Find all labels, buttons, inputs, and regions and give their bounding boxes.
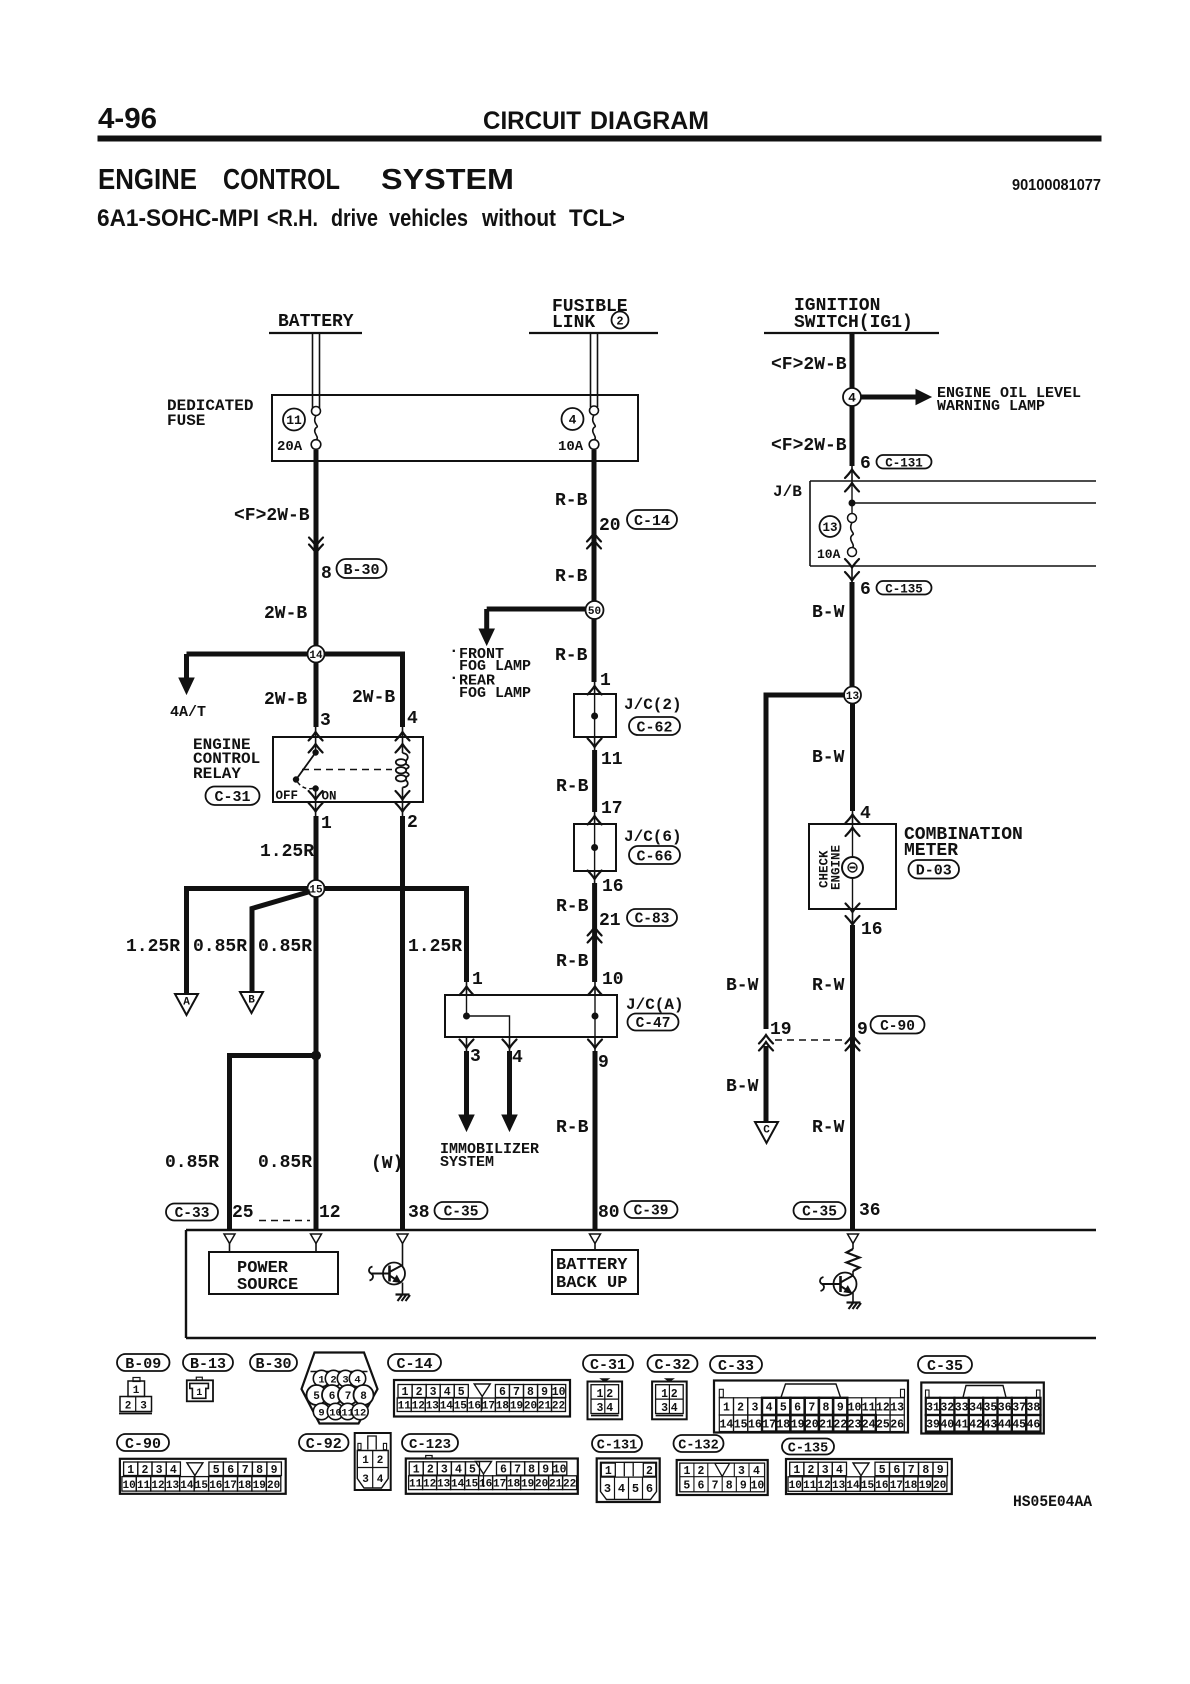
svg-text:BATTERY: BATTERY	[278, 312, 354, 332]
svg-text:4: 4	[407, 709, 418, 729]
svg-text:C-39: C-39	[634, 1204, 669, 1220]
svg-text:13: 13	[846, 691, 860, 703]
svg-text:4: 4	[354, 1375, 360, 1387]
svg-text:14: 14	[180, 1480, 194, 1492]
svg-text:18: 18	[238, 1480, 252, 1492]
svg-text:15: 15	[195, 1480, 209, 1492]
wire branch node13 left	[766, 693, 845, 698]
svg-text:21: 21	[819, 1418, 833, 1431]
svg-text:11: 11	[286, 413, 302, 428]
svg-text:R-W: R-W	[812, 976, 845, 996]
svg-text:3: 3	[661, 1402, 668, 1415]
svg-text:12: 12	[817, 1480, 830, 1492]
svg-text:4: 4	[671, 1402, 678, 1415]
svg-text:ON: ON	[322, 790, 337, 804]
svg-text:R-B: R-B	[556, 952, 589, 972]
svg-text:B-W: B-W	[812, 748, 845, 768]
svg-text:ENGINE: ENGINE	[830, 845, 844, 890]
svg-text:3: 3	[140, 1401, 147, 1413]
fuse number 4	[562, 408, 584, 430]
svg-text:4: 4	[444, 1386, 451, 1399]
wire main to ECU pin12	[314, 897, 319, 1230]
svg-text:4: 4	[455, 1464, 462, 1477]
svg-text:2: 2	[737, 1402, 744, 1415]
connector label C-62	[629, 717, 680, 736]
svg-text:12: 12	[876, 1402, 890, 1415]
svg-text:RELAY: RELAY	[193, 765, 241, 783]
svg-text:<F>2W-B: <F>2W-B	[234, 506, 310, 526]
svg-text:42: 42	[969, 1418, 983, 1431]
svg-text:C-66: C-66	[636, 848, 672, 865]
label CHECK ENGINE rotated	[818, 850, 832, 888]
transistor Q2	[852, 1271, 854, 1277]
svg-text:37: 37	[1012, 1402, 1026, 1415]
svg-text:90100081077: 90100081077	[1012, 177, 1101, 194]
svg-text:11: 11	[601, 750, 623, 770]
svg-text:40: 40	[940, 1418, 954, 1431]
svg-text:11: 11	[803, 1480, 817, 1492]
chevron double up C-83	[588, 927, 602, 936]
svg-text:SWITCH(IG1): SWITCH(IG1)	[794, 313, 913, 333]
svg-text:1: 1	[127, 1464, 134, 1477]
svg-text:12: 12	[354, 1408, 367, 1420]
svg-text:10: 10	[552, 1386, 566, 1399]
svg-text:1: 1	[793, 1464, 800, 1477]
svg-text:2W-B: 2W-B	[264, 690, 307, 710]
svg-text:4: 4	[569, 413, 577, 428]
svg-text:14: 14	[451, 1479, 465, 1491]
triangle connector B	[240, 992, 263, 1013]
svg-text:6: 6	[860, 454, 871, 474]
relay dashed link	[302, 769, 392, 771]
svg-text:9: 9	[598, 1053, 609, 1073]
svg-text:1.25R: 1.25R	[126, 937, 180, 957]
svg-text:C-35: C-35	[444, 1205, 479, 1221]
svg-text:8: 8	[527, 1386, 534, 1399]
svg-text:4: 4	[836, 1464, 843, 1477]
svg-text:3: 3	[362, 1474, 369, 1486]
chevrons J/B exit	[845, 559, 859, 568]
svg-text:11: 11	[137, 1480, 151, 1492]
svg-text:23: 23	[848, 1418, 862, 1431]
svg-text:9: 9	[937, 1464, 944, 1477]
svg-text:0.85R: 0.85R	[258, 1153, 312, 1173]
svg-text:11: 11	[398, 1401, 412, 1413]
svg-text:C: C	[763, 1125, 770, 1137]
svg-text:C-47: C-47	[636, 1016, 671, 1032]
svg-text:9: 9	[541, 1386, 548, 1399]
svg-text:4: 4	[618, 1482, 625, 1496]
triangle connector A	[175, 994, 198, 1015]
svg-text:5: 5	[213, 1464, 220, 1477]
svg-text:B-13: B-13	[190, 1356, 226, 1373]
connector label C-47	[628, 1014, 679, 1033]
connector C-33 pinout	[714, 1381, 908, 1433]
svg-text:20: 20	[805, 1418, 819, 1431]
svg-text:CONTROL: CONTROL	[223, 164, 340, 196]
fuse number 13	[820, 516, 841, 537]
svg-text:2: 2	[606, 1388, 613, 1401]
svg-text:D-03: D-03	[916, 863, 952, 880]
connector label C-14 bottom	[388, 1354, 441, 1373]
svg-text:(W): (W)	[371, 1154, 403, 1174]
connector label C-32 bottom	[648, 1355, 698, 1374]
svg-text:<F>2W-B: <F>2W-B	[771, 355, 847, 375]
wire relay pin1 to node15	[315, 802, 317, 816]
connector label B-09 bottom	[117, 1354, 170, 1373]
wire JC2 to JC6	[594, 737, 596, 750]
svg-text:FUSE: FUSE	[167, 412, 205, 430]
relay box	[273, 737, 423, 802]
svg-text:5: 5	[780, 1402, 787, 1415]
svg-text:19: 19	[521, 1479, 534, 1491]
svg-text:2: 2	[671, 1388, 678, 1401]
wire coil out to ECU pin38	[402, 802, 404, 816]
svg-text:8: 8	[321, 564, 332, 584]
node 50	[586, 601, 604, 619]
svg-text:3: 3	[597, 1402, 604, 1415]
combination meter box	[809, 824, 896, 909]
svg-text:13: 13	[822, 521, 837, 535]
wire fusible main	[592, 450, 597, 610]
svg-text:1: 1	[605, 1465, 612, 1478]
wire JCA pin9 to ECU	[594, 1037, 596, 1051]
svg-text:J/C(A): J/C(A)	[626, 996, 684, 1014]
connector C-35 pinout	[921, 1383, 1044, 1434]
svg-text:17: 17	[224, 1480, 237, 1492]
svg-text:B-09: B-09	[125, 1356, 161, 1373]
wire node50 to JC2	[592, 619, 597, 682]
svg-text:15: 15	[454, 1401, 468, 1413]
svg-text:A: A	[183, 997, 190, 1009]
svg-text:SYSTEM: SYSTEM	[381, 164, 514, 196]
svg-text:12: 12	[423, 1479, 436, 1491]
svg-text:1: 1	[597, 1388, 604, 1401]
svg-text:R-B: R-B	[555, 491, 588, 511]
svg-text:21: 21	[549, 1479, 563, 1491]
wire branch fog lamps	[487, 607, 586, 612]
svg-text:C-132: C-132	[678, 1438, 719, 1453]
svg-text:4: 4	[377, 1474, 384, 1486]
wire fusible-link lead double-line	[590, 334, 592, 407]
wire to oil level lamp	[861, 395, 918, 400]
svg-text:19: 19	[791, 1418, 805, 1431]
svg-text:10: 10	[122, 1480, 135, 1492]
wire jog to B	[252, 892, 310, 993]
resistor R1	[852, 1244, 854, 1250]
wire branch to 4A/T	[187, 652, 308, 657]
connector B-30 pinout	[302, 1353, 378, 1424]
connector label C-14	[627, 510, 677, 530]
wire ignition feed	[850, 334, 855, 466]
svg-text:11: 11	[862, 1402, 876, 1415]
svg-text:6: 6	[893, 1464, 900, 1477]
svg-text:C-14: C-14	[396, 1356, 432, 1373]
svg-text:80: 80	[598, 1203, 620, 1223]
connector B-09 pinout	[133, 1378, 140, 1382]
arrow to 4A/T	[179, 678, 194, 694]
connector label C-66	[629, 846, 680, 865]
connector C-131 pinout	[597, 1458, 660, 1502]
connector label C-83	[627, 909, 677, 928]
svg-text:6: 6	[329, 1391, 336, 1403]
svg-text:C-131: C-131	[597, 1438, 638, 1453]
svg-text:B: B	[248, 995, 255, 1007]
svg-text:10A: 10A	[817, 547, 841, 562]
svg-text:2: 2	[330, 1375, 336, 1387]
svg-text:33: 33	[955, 1402, 969, 1415]
svg-text:4: 4	[766, 1402, 773, 1415]
connector label C-131	[877, 455, 932, 470]
svg-text:38: 38	[408, 1203, 430, 1223]
svg-text:R-B: R-B	[556, 897, 589, 917]
svg-text:C-33: C-33	[718, 1358, 754, 1375]
svg-text:39: 39	[926, 1418, 940, 1431]
node 15	[308, 880, 325, 897]
svg-text:3: 3	[156, 1464, 163, 1477]
svg-text:0.85R: 0.85R	[193, 937, 247, 957]
wire relay pin3	[314, 662, 319, 727]
svg-text:1: 1	[661, 1388, 668, 1401]
svg-text:13: 13	[166, 1480, 180, 1492]
svg-text:OFF: OFF	[276, 789, 299, 803]
svg-text:SOURCE: SOURCE	[237, 1276, 298, 1295]
svg-text:17: 17	[482, 1401, 495, 1413]
svg-text:2: 2	[808, 1464, 815, 1477]
chevrons double C-90	[759, 1035, 773, 1044]
svg-text:R-W: R-W	[812, 1118, 845, 1138]
svg-text:6: 6	[499, 1386, 506, 1399]
svg-text:15: 15	[734, 1418, 748, 1431]
svg-text:7: 7	[514, 1464, 521, 1477]
connector C-31 pinout	[588, 1382, 623, 1420]
svg-text:11: 11	[409, 1479, 423, 1491]
connector label C-35 bottom	[918, 1356, 972, 1375]
svg-text:17: 17	[493, 1479, 506, 1491]
svg-text:16: 16	[748, 1418, 762, 1431]
svg-text:2: 2	[427, 1464, 434, 1477]
junction dot	[312, 1051, 321, 1060]
connector label B-30	[337, 559, 387, 579]
svg-text:5: 5	[469, 1464, 476, 1477]
chevrons J/B entry	[845, 470, 859, 479]
svg-text:6A1-SOHC-MPI: 6A1-SOHC-MPI	[97, 205, 259, 232]
connector C-123 pinout	[406, 1459, 578, 1494]
svg-text:7: 7	[513, 1386, 520, 1399]
svg-text:14: 14	[846, 1480, 860, 1492]
ground Q2	[847, 1301, 861, 1303]
svg-text:C-92: C-92	[306, 1436, 342, 1453]
svg-text:2: 2	[698, 1465, 705, 1478]
header rule	[98, 136, 1101, 141]
svg-text:C-35: C-35	[802, 1205, 837, 1221]
connector label B-30 bottom	[250, 1354, 297, 1373]
svg-text:B-W: B-W	[812, 603, 845, 623]
svg-text:J/C(2): J/C(2)	[624, 696, 682, 714]
svg-text:6: 6	[646, 1482, 653, 1496]
connector C-135 pinout	[786, 1459, 952, 1494]
transistor Q1	[402, 1244, 404, 1267]
wire immobilizer feed 3	[466, 1037, 468, 1051]
arrowhead oil lamp	[916, 390, 931, 405]
svg-text:16: 16	[209, 1480, 222, 1492]
svg-text:17: 17	[601, 799, 623, 819]
chevrons meter entry	[846, 815, 860, 824]
svg-text:LINK: LINK	[552, 313, 595, 333]
svg-text:22: 22	[552, 1401, 565, 1413]
svg-text:46: 46	[1026, 1418, 1040, 1431]
svg-text:1: 1	[196, 1388, 202, 1399]
svg-text:18: 18	[496, 1401, 510, 1413]
svg-text:15: 15	[309, 884, 323, 896]
svg-text:drive: drive	[331, 205, 378, 232]
svg-text:7: 7	[908, 1464, 915, 1477]
svg-text:6: 6	[860, 580, 871, 600]
svg-text:TCL>: TCL>	[569, 205, 625, 232]
svg-text:8: 8	[256, 1464, 263, 1477]
svg-text:8: 8	[823, 1402, 830, 1415]
chevrons meter exit	[846, 904, 860, 913]
svg-text:1: 1	[723, 1402, 730, 1415]
svg-text:18: 18	[507, 1479, 521, 1491]
svg-text:C-123: C-123	[409, 1437, 451, 1453]
svg-text:BACK UP: BACK UP	[556, 1274, 627, 1293]
svg-text:4: 4	[170, 1464, 177, 1477]
svg-text:1: 1	[362, 1455, 369, 1467]
svg-text:13: 13	[426, 1401, 440, 1413]
svg-text:3: 3	[822, 1464, 829, 1477]
fuse F4 element	[590, 406, 599, 415]
svg-text:15: 15	[861, 1480, 875, 1492]
svg-text:HS05E04AA: HS05E04AA	[1013, 1493, 1092, 1511]
svg-text:3: 3	[320, 711, 331, 731]
svg-text:2: 2	[616, 314, 623, 328]
svg-text:8: 8	[360, 1391, 367, 1403]
svg-text:C-83: C-83	[635, 912, 670, 928]
svg-text:5: 5	[683, 1479, 690, 1492]
svg-text:14: 14	[309, 650, 323, 662]
svg-text:22: 22	[833, 1418, 847, 1431]
svg-text:3: 3	[342, 1375, 348, 1387]
svg-text:12: 12	[319, 1203, 341, 1223]
chevron JC6 entry	[588, 816, 602, 825]
svg-text:9: 9	[271, 1464, 278, 1477]
connector label C-31	[206, 787, 260, 807]
power source box	[229, 1244, 231, 1253]
svg-text:1: 1	[472, 970, 483, 990]
svg-text:26: 26	[890, 1418, 904, 1431]
svg-text:41: 41	[955, 1418, 969, 1431]
wire battery main feed	[314, 450, 319, 654]
ECU box	[186, 1229, 1096, 1231]
junction box J/C(2)	[574, 694, 616, 737]
svg-text:21: 21	[599, 911, 621, 931]
connector label C-92 bottom	[299, 1434, 349, 1453]
triangle connector C	[755, 1122, 778, 1143]
svg-text:C-131: C-131	[885, 456, 923, 470]
svg-text:13: 13	[832, 1480, 846, 1492]
svg-text:20: 20	[267, 1480, 280, 1492]
connector C-132 pinout	[677, 1460, 768, 1495]
svg-text:7: 7	[242, 1464, 249, 1477]
svg-text:17: 17	[762, 1418, 776, 1431]
svg-text:34: 34	[969, 1402, 983, 1415]
label (C-35) pin36	[794, 1202, 846, 1221]
svg-text:B-30: B-30	[255, 1356, 291, 1373]
svg-text:J/C(6): J/C(6)	[624, 828, 682, 846]
svg-text:14: 14	[440, 1401, 454, 1413]
svg-text:·: ·	[449, 669, 459, 687]
svg-text:6: 6	[227, 1464, 234, 1477]
check engine lamp	[842, 857, 863, 878]
chevrons JCA exits	[460, 1040, 474, 1049]
svg-text:R-B: R-B	[556, 1118, 589, 1138]
chevron double up C-14 pin20	[587, 533, 601, 542]
svg-text:43: 43	[983, 1418, 997, 1431]
wire JC6 down	[594, 871, 596, 883]
chevrons relay pin2 exit	[396, 791, 410, 800]
svg-text:36: 36	[998, 1402, 1012, 1415]
svg-text:7: 7	[712, 1479, 719, 1492]
svg-text:24: 24	[862, 1418, 876, 1431]
chevrons relay pin1 exit	[309, 791, 323, 800]
svg-text:9: 9	[837, 1402, 844, 1415]
svg-text:4A/T: 4A/T	[170, 704, 206, 721]
svg-text:2: 2	[141, 1464, 148, 1477]
svg-text:16: 16	[861, 920, 883, 940]
svg-text:CIRCUIT: CIRCUIT	[483, 107, 581, 135]
svg-text:12: 12	[412, 1401, 425, 1413]
svg-text:WARNING LAMP: WARNING LAMP	[937, 398, 1045, 415]
fuse number 11	[283, 409, 305, 431]
svg-text:C-135: C-135	[885, 582, 923, 596]
svg-text:3: 3	[430, 1386, 437, 1399]
wire immobilizer feed 4	[509, 1037, 511, 1051]
connector C-32 pinout	[652, 1382, 687, 1420]
svg-text:·: ·	[449, 642, 459, 660]
svg-text:21: 21	[538, 1401, 552, 1413]
svg-text:C-31: C-31	[214, 789, 250, 806]
svg-text:10: 10	[751, 1479, 765, 1492]
svg-text:5: 5	[458, 1386, 465, 1399]
svg-text:2: 2	[407, 813, 418, 833]
node 4 oil lamp	[843, 388, 861, 406]
svg-text:7: 7	[808, 1402, 815, 1415]
svg-text:METER: METER	[904, 841, 958, 861]
chevrons relay pin4 entry	[396, 732, 410, 741]
connector C-90 pinout	[120, 1459, 286, 1494]
wire node13 to meter	[850, 703, 855, 811]
wire to triangle C	[764, 1046, 769, 1122]
svg-text:6: 6	[697, 1479, 704, 1492]
svg-text:B-W: B-W	[726, 976, 759, 996]
svg-text:13: 13	[437, 1479, 451, 1491]
svg-text:BATTERY: BATTERY	[556, 1256, 628, 1275]
label (C-39) pin80	[625, 1201, 678, 1220]
svg-text:1.25R: 1.25R	[260, 842, 314, 862]
connector label C-135 bottom	[782, 1439, 834, 1457]
node 13	[844, 687, 861, 704]
svg-text:20: 20	[933, 1480, 946, 1492]
svg-text:50: 50	[588, 606, 601, 618]
chevron double down B-30 pin 8	[309, 545, 323, 554]
svg-text:7: 7	[345, 1391, 352, 1403]
svg-text:5: 5	[879, 1464, 886, 1477]
fuse F13 element	[848, 514, 857, 523]
svg-text:9: 9	[740, 1479, 747, 1492]
wire rail to J/C(A)	[464, 886, 469, 982]
connector label C-123 bottom	[402, 1434, 458, 1453]
